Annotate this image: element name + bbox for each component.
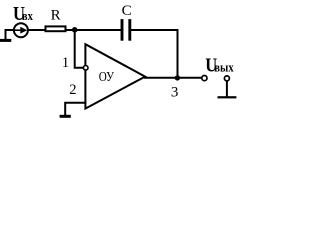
- label Uvyx: [205, 54, 234, 76]
- node 3 (junction dot on output): [175, 75, 180, 80]
- inverting input bubble: [83, 66, 88, 71]
- wire resistor to capacitor: [67, 29, 122, 31]
- svg-text:3: 3: [171, 84, 179, 100]
- capacitor C plates: [122, 19, 130, 41]
- label Uvx: [13, 3, 33, 25]
- ground (pin 2): [60, 115, 71, 118]
- svg-text:ОУ: ОУ: [99, 69, 115, 84]
- svg-text:C: C: [122, 2, 132, 19]
- output wire from op-amp apex to terminal: [144, 77, 202, 79]
- ground terminal circle (bottom right): [224, 76, 229, 81]
- ground (input source): [0, 30, 14, 42]
- svg-text:2: 2: [69, 82, 76, 98]
- wire pin 2: [65, 103, 86, 116]
- wire capacitor to feedback corner and down to output: [131, 30, 178, 78]
- output terminal circle: [202, 76, 207, 81]
- ground (output terminal): [218, 96, 237, 98]
- svg-text:вх: вх: [22, 9, 33, 23]
- source Uvx (circle with arrow): [14, 23, 28, 37]
- svg-text:1: 1: [62, 55, 69, 71]
- svg-text:R: R: [51, 8, 61, 24]
- node A (junction dot after R): [72, 27, 78, 33]
- wire source to resistor: [28, 29, 45, 31]
- svg-text:вых: вых: [214, 61, 234, 75]
- wire node A down to inverting input: [75, 30, 84, 68]
- wire terminal to ground: [226, 81, 228, 97]
- resistor R: [46, 26, 66, 31]
- op-amp OU triangle: [85, 44, 145, 108]
